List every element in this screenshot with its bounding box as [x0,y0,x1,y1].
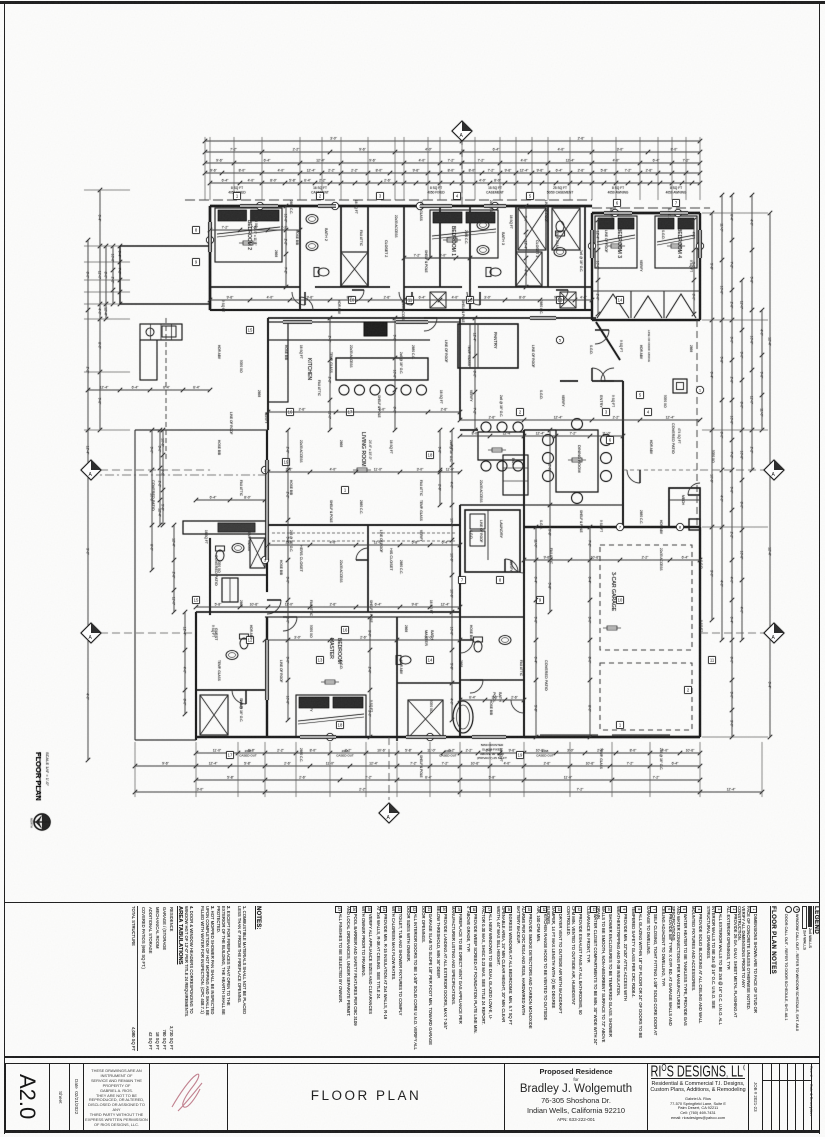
roof line above top wall [185,199,592,201]
right dimension lines [711,213,713,620]
bbq grill [162,326,176,337]
outdoor shower door arc [232,690,246,704]
door arc [399,292,412,305]
garage north wall [524,526,700,528]
bbq counter [140,324,182,340]
grid diamond left lower [81,623,101,643]
door arc [511,700,524,713]
outdoor shower [196,689,265,691]
centerline top [461,137,463,206]
bbq side counter [140,340,157,380]
mech room [669,488,700,527]
kitchen island [336,358,428,380]
powder bath cluster west [210,574,267,576]
door arc [467,292,480,305]
top extension lines [204,137,206,200]
patio column [689,519,700,530]
entry vestibule north [592,380,623,382]
notes band bottom rule [4,1056,820,1058]
bed bedroom 2 [215,208,282,262]
south exterior wall [196,736,700,738]
interior walls: bedroom band partitions [299,206,301,310]
window bedroom3 [604,211,632,214]
door arc [283,617,297,631]
door arc [424,318,437,331]
garage door 1 [540,734,598,736]
garage south wall [524,736,700,738]
door tags [234,193,241,200]
kitchen counters [268,321,460,323]
window bedroom4 [660,211,688,214]
sgd living west [265,460,268,560]
floor plan drawing [0,0,825,860]
master suite closets [196,611,460,613]
door arc [356,548,368,560]
door arc [300,297,313,310]
linen hall 2 [560,292,576,308]
pool bath rooms [460,616,524,618]
revision table [771,1063,772,1131]
outer right dim line [769,213,771,737]
centerline left [88,469,210,471]
toilet guest [240,634,249,649]
outdoor shower west wall [195,612,197,740]
garage dashed bay 2 [600,663,692,730]
fountain inner sq [677,383,684,390]
door arc [460,640,473,653]
dining east wall [622,381,624,527]
washer [470,514,485,529]
kitchen left counter [268,322,288,402]
patio dashed centerline [165,318,167,460]
outdoor kitchen fixtures [146,328,154,336]
exterior wall: bedrooms 3-4 block [592,212,700,215]
page right border [819,1,820,1134]
door arc [352,290,364,302]
ceiling fixture marks [239,241,257,245]
sink bath2 b [306,242,318,251]
page left border [4,1,5,1134]
north arrow [30,814,51,830]
linen cabinet [222,578,238,602]
window master south [300,735,336,738]
page top edge [0,1,825,4]
sink powder west [232,544,244,553]
interior dimension strings [268,411,460,413]
left dimension lines [87,240,89,760]
west wall master suite lower [266,617,268,737]
date [70,1063,84,1131]
pool bath door arc [470,680,483,693]
window kitchen2 [396,320,428,323]
signature [150,1063,228,1131]
master bed [296,695,366,737]
patio counter [183,521,268,534]
closet gables in bedroom 3/4 block [597,294,696,318]
window bedroom1 [420,204,452,207]
grid diamond bottom [379,803,399,823]
garage east wall [699,527,701,737]
laundry door arc [505,559,518,572]
shower bath3 [516,252,542,286]
copyright text [84,1063,150,1131]
shower bath2 [341,252,368,286]
toilet powder [556,221,565,236]
centerline patio [88,474,267,476]
door arc [292,292,305,305]
toilet pool bath [474,637,483,652]
grid diamond left upper [81,460,101,480]
kitchen range (dark) [364,322,387,336]
kitchen west wall [267,318,269,430]
sink powder [554,248,566,257]
toilet powder west [216,546,225,561]
fountain outer sq [673,379,687,393]
garage dashed bay 1 [600,545,692,650]
master door arc [267,600,281,614]
toilet wc [396,656,411,665]
skylight box 2 [552,208,580,250]
laundry room walls [465,510,520,572]
island stools [339,385,349,395]
sink guest [226,651,238,660]
bed bedroom 3 [595,216,637,268]
entry door arc a [592,368,605,381]
wall: hall south / band divider [210,309,592,311]
job number [749,1063,763,1131]
door arc [511,560,524,573]
window tags [256,202,263,209]
window bedroom2 [240,204,278,207]
linen hall 1 [430,292,446,308]
skylight box 1 [518,208,546,250]
patio counter hatch [218,523,255,532]
bed bedroom 1 [430,210,498,258]
sink bath3 b [477,246,489,255]
nook table [478,432,524,460]
bed bedroom 4 [655,216,697,268]
sheet label [50,1063,70,1131]
sgd casita south [472,735,506,738]
outdoor shower pan [200,695,228,735]
door arc [688,483,700,495]
west outdoor kitchen / patio walls [120,245,210,247]
title block outer [5,1063,820,1131]
grid diamond right upper [764,460,784,480]
window kitchen [283,320,312,323]
notes band [782,906,818,1051]
hall and laundry walls (right mid) [459,318,461,420]
extra interior dimension strings [210,229,300,231]
dryer [470,531,485,546]
top dimension lines [205,140,700,142]
window bedroom4 east [698,230,701,258]
bottom dimension lines [196,752,700,754]
window nook [530,316,556,319]
dining table [556,430,598,492]
covered patio edge [134,430,136,740]
window bath3 [484,204,506,207]
entry door arc b [601,368,614,381]
wall: hall north (bedroom band south) [210,286,300,288]
grid diamond right lower [764,623,784,643]
exterior wall: bedroom wing top [210,205,592,208]
window bedroom3 west [590,230,593,258]
garage door 2 [612,734,670,736]
logo RIOS DESIGNS [648,1063,749,1131]
shower powder west [250,538,265,568]
door arc [595,330,609,344]
window bath2 [318,204,336,207]
page bottom border [4,1131,820,1133]
sink pool bath [499,636,511,645]
master bedroom [265,616,460,618]
exterior wall: west wall bedroom 2 [209,206,212,310]
toilet bath3 [486,268,501,277]
sink bath2 a [306,215,318,224]
freestanding tub [453,701,473,733]
patio roof dashed east [696,320,698,527]
powder west wall [209,538,211,615]
bar counter [503,455,528,495]
sheet number A2.0 [5,1063,50,1131]
west wall master suite upper [266,430,268,592]
window bedroom2 west [208,222,211,252]
door arc [556,290,568,302]
notes band top rule [4,902,820,903]
entry diagonal wall [596,322,620,360]
sgd master west [265,640,268,700]
window bath south [406,735,446,738]
sink bath3 a [477,221,489,230]
project info [505,1063,648,1131]
drawing title [228,1063,505,1131]
toilet bath2 [314,268,329,277]
grid diamond top [452,121,472,141]
master shower pan [408,700,443,738]
master bath / wc [396,617,398,741]
door arc [627,470,640,483]
pantry [458,324,518,368]
